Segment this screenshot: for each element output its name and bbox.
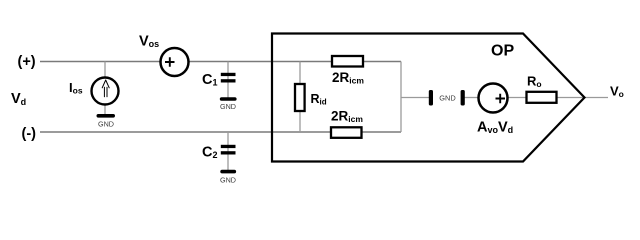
capacitor C1 [221, 73, 236, 83]
resistor Rid [295, 84, 305, 111]
svg-text:OP: OP [491, 43, 514, 60]
wire C1 branch [227, 62, 229, 98]
label AvoVd [477, 120, 513, 136]
ground under C1 [220, 97, 237, 111]
resistor Ro [527, 92, 557, 103]
ground under Ios [97, 114, 116, 129]
svg-text:GND: GND [98, 120, 114, 129]
label Vo output [610, 84, 624, 100]
wire right loop vertical [400, 62, 402, 133]
capacitor C2 [221, 145, 236, 155]
resistor 2Ricm bottom [331, 127, 362, 138]
wire output [584, 97, 608, 99]
label OP [491, 43, 514, 60]
label 2Ricm bottom [331, 109, 363, 125]
wire mid node to bar [401, 97, 429, 99]
label Ro [527, 74, 542, 90]
svg-text:GND: GND [439, 94, 455, 103]
label 2Ricm top [332, 70, 364, 86]
wire Rid branch [299, 62, 301, 133]
svg-text:GND: GND [220, 102, 236, 111]
ground under C2 [220, 170, 236, 185]
node bar left of internal GND [429, 90, 433, 106]
wire top rail (+) [40, 61, 401, 63]
node bar right of internal GND [461, 90, 465, 106]
svg-text:(-): (-) [22, 126, 37, 142]
label (+) [18, 54, 36, 70]
wire bar to Avo source [464, 97, 480, 99]
voltage source Vos [161, 48, 189, 76]
svg-text:GND: GND [220, 176, 236, 185]
label C1 [202, 72, 218, 88]
label Vos [139, 34, 159, 50]
resistor 2Ricm top [332, 56, 363, 67]
wire C2 branch [227, 132, 229, 170]
label Ios [69, 80, 83, 96]
op-amp OP block outline [272, 34, 585, 162]
dependent source AvoVd [479, 84, 508, 113]
label (-) [22, 126, 37, 142]
label Rid [311, 92, 327, 107]
wire Ro to apex [556, 97, 584, 99]
svg-text:(+): (+) [18, 54, 36, 70]
current source Ios [92, 78, 119, 105]
label GND internal node [439, 94, 455, 103]
wire Avo source to Ro [507, 97, 527, 99]
wire bottom rail (-) [40, 131, 401, 133]
label Vd [11, 91, 26, 107]
label C2 [202, 145, 218, 161]
wire Ios branch [104, 62, 106, 115]
